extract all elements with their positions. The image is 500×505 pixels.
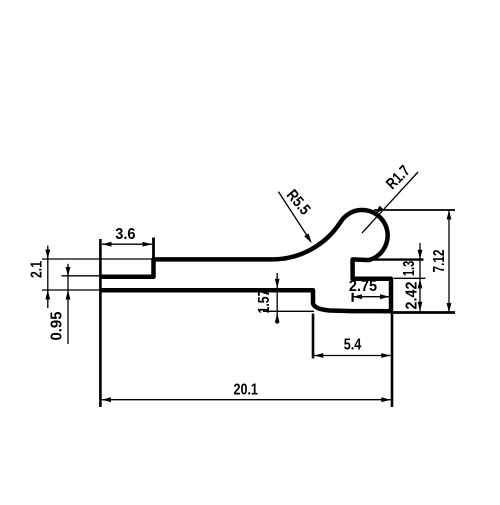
extension line horizontal y=290 left (bottom edge for 2.1 / 0.95): [42, 289, 100, 291]
leader R5.5: [278, 187, 313, 243]
extension tick x=352.6 below notch (left end of 2.75): [352, 293, 354, 302]
svg-text:0.95: 0.95: [49, 311, 66, 340]
dimension 1.3 / 2.42 line: [401, 243, 422, 312]
extension line horizontal y=278.3 right (1.3 / 2.42 boundary): [394, 277, 426, 279]
extension line horizontal y=259 right (top of 1.3): [374, 258, 424, 260]
extension line vertical x=153.5 (right end of 3.6): [152, 238, 155, 262]
svg-text:2.42: 2.42: [404, 281, 421, 309]
dimension 5.4: [314, 337, 391, 358]
svg-text:5.4: 5.4: [344, 337, 362, 354]
extension line vertical x=392 (right end of 5.4 / 20.1): [391, 312, 394, 408]
svg-text:3.6: 3.6: [115, 226, 135, 243]
dimension 3.6: [102, 226, 152, 247]
dimension 20.1: [102, 382, 391, 403]
extension line horizontal y=210 right (top of bulb for 7.12): [374, 209, 455, 211]
svg-text:2.75: 2.75: [349, 278, 377, 295]
extension line horizontal y=276.5 left (tongue top for 0.95): [62, 275, 101, 277]
dimension 2.1: [29, 246, 51, 308]
extension line horizontal y=312.5 right (bottom for 2.42 / 7.12): [392, 311, 455, 314]
svg-text:20.1: 20.1: [233, 382, 258, 399]
svg-text:1.57: 1.57: [256, 289, 273, 313]
extension line vertical x=313 (left end of 5.4): [312, 314, 315, 359]
leader R1.7: [362, 162, 418, 233]
profile outline: [100, 210, 391, 311]
dimension 2.75: [349, 278, 390, 299]
svg-text:7.12: 7.12: [431, 249, 448, 272]
extension line vertical x=100.4 (left datum for 3.6 / 20.1): [99, 239, 102, 407]
dimension 0.95: [49, 264, 71, 344]
svg-text:2.1: 2.1: [29, 261, 46, 278]
dimension 1.57: [256, 273, 280, 324]
extension line horizontal y=259 left (top edge for 2.1): [42, 258, 152, 260]
extension line horizontal y=311.3 left (for 1.57): [263, 310, 314, 312]
dimension 7.12: [431, 210, 451, 313]
svg-text:1.3: 1.3: [401, 261, 418, 277]
